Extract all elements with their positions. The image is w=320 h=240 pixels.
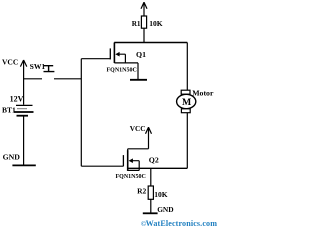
svg-text:10K: 10K xyxy=(149,19,163,28)
svg-text:FQN1N50C: FQN1N50C xyxy=(116,174,146,180)
wire: left vertical gate bus xyxy=(80,59,82,167)
svg-text:VCC: VCC xyxy=(2,58,18,67)
svg-text:R2: R2 xyxy=(137,187,146,196)
wire: Q1 source drop xyxy=(137,63,139,79)
svg-text:M: M xyxy=(182,97,191,108)
svg-text:WatElectronics.com: WatElectronics.com xyxy=(146,219,218,228)
ground symbol (left) xyxy=(12,164,35,166)
wire: bottom rail to R2 xyxy=(150,168,152,186)
wire: bottom rail (Q2 source to motor branch) xyxy=(128,167,188,169)
wire: Q2 gate lead xyxy=(81,165,123,167)
power VCC arrow (left) xyxy=(20,60,26,105)
wire: top rail (Q1 drain to motor branch) xyxy=(114,42,187,44)
transistor Q1 xyxy=(110,43,138,64)
svg-text:FQN1N50C: FQN1N50C xyxy=(107,68,137,74)
terminal bar at Q1 source xyxy=(130,79,147,81)
ground symbol (right) xyxy=(143,212,158,214)
resistor R2 xyxy=(148,186,153,199)
svg-text:Q1: Q1 xyxy=(136,50,146,59)
transistor Q2 xyxy=(123,150,139,171)
wire: Q1 gate lead xyxy=(81,58,110,60)
wire: R1 to top rail xyxy=(143,28,145,42)
switch SW1 xyxy=(44,66,55,72)
power VCC arrow (middle, Q2 drain) xyxy=(128,127,152,151)
power VCC arrow (top, above R1) xyxy=(141,2,147,16)
battery BT1 plates xyxy=(14,105,34,115)
wire: battery to ground xyxy=(23,117,25,166)
svg-text:Motor: Motor xyxy=(192,88,214,97)
svg-text:Q2: Q2 xyxy=(149,156,159,165)
svg-text:R1: R1 xyxy=(132,20,141,28)
wire: motor to bottom rail xyxy=(186,113,188,169)
svg-text:12V: 12V xyxy=(10,95,24,104)
svg-text:SW1: SW1 xyxy=(30,62,46,71)
motor terminal (bottom) xyxy=(181,109,190,113)
svg-text:VCC: VCC xyxy=(130,124,146,133)
motor M body xyxy=(177,94,196,108)
wire: switch to gate junction xyxy=(54,78,81,80)
motor terminal (top) xyxy=(181,90,190,94)
svg-text:GND: GND xyxy=(3,153,21,162)
wire: right vertical to motor xyxy=(186,43,188,91)
wire: R2 to ground xyxy=(150,199,152,213)
svg-text:10K: 10K xyxy=(154,190,168,199)
resistor R1 xyxy=(141,16,146,28)
wire: VCC node to switch (left segment) xyxy=(24,78,42,80)
svg-text:GND: GND xyxy=(157,205,173,214)
svg-text:BT1: BT1 xyxy=(2,105,16,114)
